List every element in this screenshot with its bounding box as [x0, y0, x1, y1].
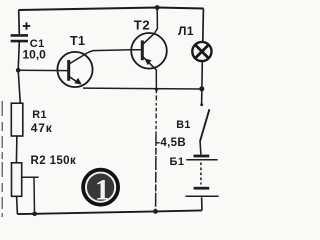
resistor R2	[12, 163, 22, 197]
wire bottom rail	[17, 210, 202, 214]
svg-text:Л1: Л1	[178, 24, 194, 38]
svg-text:R1: R1	[32, 109, 47, 121]
wire R1 top lead	[18, 70, 20, 103]
scan edge artifact left	[1, 101, 3, 217]
battery B1 cell 1	[186, 156, 217, 160]
wire switch to battery	[199, 142, 202, 155]
switch B1 lever	[200, 109, 210, 141]
node rail junction dot (R2 tap)	[32, 212, 37, 217]
wire lamp to switch	[201, 62, 204, 105]
wire top rail	[19, 8, 204, 11]
node A junction dot	[16, 68, 21, 73]
svg-text:T1: T1	[70, 34, 85, 48]
lamp L1	[192, 42, 211, 61]
wire T2 emitter down to rail	[155, 70, 157, 90]
node rail junction dot (emitter drop)	[153, 209, 158, 214]
transistor T1	[57, 52, 92, 87]
badge figure number 1	[83, 170, 118, 207]
node emitter crossing dot	[155, 88, 158, 91]
svg-text:1: 1	[95, 173, 110, 206]
wire R2 bottom lead	[16, 196, 19, 214]
wire battery dashed connector	[200, 163, 202, 185]
svg-text:T2: T2	[134, 17, 150, 32]
wire emitters horizontal	[83, 87, 202, 90]
wire T2 collector up	[154, 8, 157, 34]
battery B1 cell 2	[186, 188, 219, 196]
transistor T2	[131, 33, 167, 70]
resistor R1	[11, 103, 22, 136]
capacitor C1	[11, 22, 31, 41]
svg-text:B1: B1	[176, 119, 190, 131]
svg-text:10,0: 10,0	[23, 47, 47, 61]
node emitter/lamp junction dot	[199, 86, 204, 91]
wire T1 base lead	[18, 69, 67, 71]
svg-text:R2 150к: R2 150к	[31, 155, 77, 167]
svg-text:-4,5В: -4,5В	[156, 137, 186, 149]
svg-text:Б1: Б1	[170, 156, 185, 168]
wire lamp top lead	[202, 9, 205, 42]
wire battery to bottom rail	[201, 197, 203, 210]
wire C1 top lead	[18, 10, 21, 35]
wire T1 collector to T2 base	[88, 50, 142, 53]
wire R2 tap	[22, 176, 39, 178]
node top rail junction dot	[155, 5, 160, 10]
wire R1-R2 lead	[15, 136, 18, 163]
svg-text:47к: 47к	[31, 121, 53, 135]
wire C1 bottom lead	[18, 42, 19, 70]
